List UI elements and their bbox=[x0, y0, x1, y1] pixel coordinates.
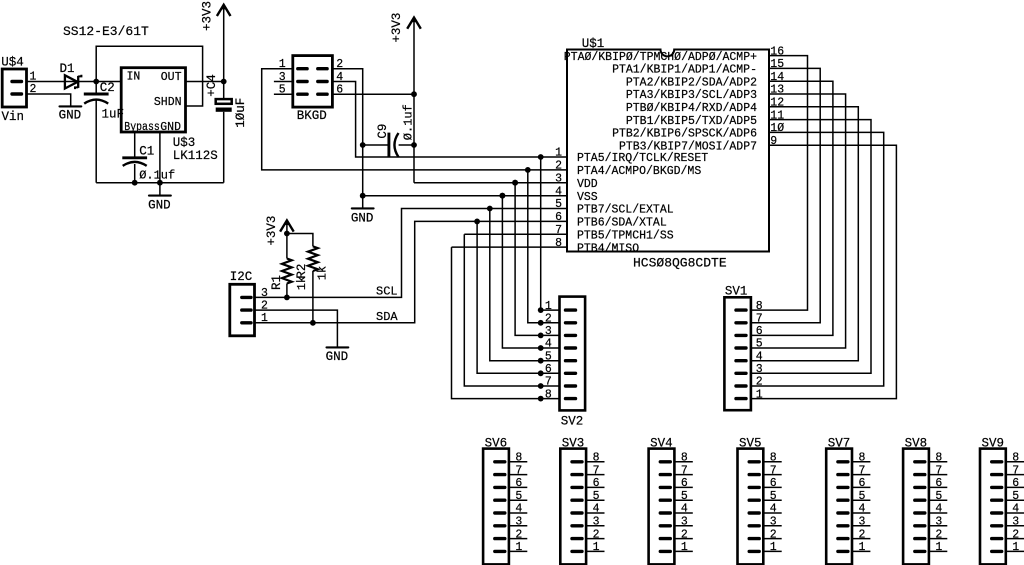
junction node tap pin 2 bbox=[525, 167, 531, 173]
svg-text:4: 4 bbox=[593, 503, 600, 516]
capacitor C4 (polarized) bbox=[216, 99, 232, 183]
value 1uF (C2) bbox=[102, 108, 125, 122]
pin number 9 (U$1) bbox=[770, 135, 777, 148]
wire MCU pin 10 to SV1 pin 2 bbox=[751, 132, 884, 386]
label SV1 bbox=[725, 285, 748, 299]
junction node SV2 pin 7 tip bbox=[538, 383, 544, 389]
pin name IN bbox=[127, 70, 141, 83]
connector SV4 bbox=[649, 449, 675, 565]
svg-text:2: 2 bbox=[935, 528, 942, 541]
junction node R2/SDA bbox=[310, 320, 316, 326]
svg-text:2: 2 bbox=[756, 376, 763, 389]
pin name GND (U$3) bbox=[160, 121, 181, 134]
pin name VDD bbox=[577, 178, 598, 191]
pin number 4 (BKGD) bbox=[336, 71, 343, 84]
svg-text:+3V3: +3V3 bbox=[265, 216, 279, 246]
svg-text:PTA5/IRQ/TCLK/RESET: PTA5/IRQ/TCLK/RESET bbox=[577, 152, 708, 165]
label +C4 bbox=[205, 74, 219, 97]
capacitor C9 bbox=[363, 133, 414, 158]
svg-text:+C4: +C4 bbox=[205, 74, 219, 97]
pin number 1 (BKGD) bbox=[279, 58, 286, 71]
svg-text:7: 7 bbox=[593, 464, 600, 477]
svg-text:4: 4 bbox=[756, 350, 763, 363]
pin number 11 (U$1) bbox=[770, 109, 784, 122]
svg-text:7: 7 bbox=[681, 464, 688, 477]
pin number 8 (SV2) bbox=[545, 388, 552, 401]
svg-text:SS12-E3/61T: SS12-E3/61T bbox=[63, 24, 149, 39]
svg-text:GND: GND bbox=[326, 350, 349, 364]
pin name PTB0/KBIP4/RXD/ADP4 bbox=[626, 102, 757, 115]
svg-text:6: 6 bbox=[1012, 477, 1019, 490]
svg-text:1: 1 bbox=[859, 541, 866, 554]
value 1k (R1) bbox=[295, 276, 309, 290]
svg-text:4: 4 bbox=[935, 503, 942, 516]
pin number 6 (SV2) bbox=[545, 363, 552, 376]
svg-text:SV6: SV6 bbox=[485, 436, 508, 450]
IC U$1 outline bbox=[567, 50, 769, 252]
svg-text:SV7: SV7 bbox=[828, 436, 851, 450]
label C2 bbox=[100, 81, 115, 95]
svg-text:5: 5 bbox=[770, 490, 777, 503]
connector I2C bbox=[230, 284, 255, 336]
supply +3V3 (BKGD) bbox=[407, 18, 421, 183]
pin number 2 (BKGD) bbox=[336, 58, 343, 71]
label SV8 bbox=[905, 436, 928, 450]
diode D1 (schottky) bbox=[65, 75, 82, 89]
junction node GND/BKGD-pin2 bbox=[360, 193, 366, 199]
svg-text:2: 2 bbox=[1012, 528, 1019, 541]
pin name PTB6/SDA/XTAL bbox=[577, 217, 667, 230]
wire SV2 pin 2 bbox=[541, 322, 560, 324]
wire Vin pin2 to GND bbox=[27, 94, 71, 106]
svg-text:1: 1 bbox=[770, 541, 777, 554]
svg-text:2: 2 bbox=[859, 528, 866, 541]
connector SV3 bbox=[560, 449, 586, 565]
pin name PTB4/MISO bbox=[577, 242, 639, 255]
label SS12-E3/61T bbox=[63, 24, 149, 39]
resistor R2 bbox=[308, 246, 318, 271]
svg-text:3: 3 bbox=[859, 516, 866, 529]
svg-text:VDD: VDD bbox=[577, 178, 598, 191]
svg-text:14: 14 bbox=[770, 71, 784, 84]
wire I2C pin2 to GND bbox=[255, 310, 338, 347]
pin number 4 (U$1) bbox=[555, 185, 562, 198]
svg-text:1Ø: 1Ø bbox=[770, 122, 784, 135]
pin number 7 (U$1) bbox=[555, 224, 562, 237]
svg-text:8: 8 bbox=[859, 452, 866, 465]
net label SCL bbox=[376, 285, 398, 299]
junction node SV2 pin 5 tip bbox=[538, 358, 544, 364]
junction node BKGD pin6/+3V3 bbox=[411, 91, 417, 97]
pin number 6 (SV1) bbox=[756, 325, 763, 338]
label U$3 bbox=[173, 136, 196, 150]
capacitor C1 bbox=[122, 132, 147, 183]
svg-text:1: 1 bbox=[555, 147, 562, 160]
wire MCU pin 16 to SV1 pin 8 bbox=[751, 56, 808, 311]
pin name PTA5/IRQ/TCLK/RESET bbox=[577, 152, 708, 165]
wire MCU pin 2 tap to SV2 pin 2 bbox=[528, 170, 541, 323]
svg-text:7: 7 bbox=[859, 464, 866, 477]
supply +3V3 (pullups) bbox=[280, 220, 294, 258]
junction node R1/SCL bbox=[284, 295, 290, 301]
junction node SV2 pin 4 tip bbox=[538, 345, 544, 351]
wire SV2 pin 1 bbox=[541, 309, 560, 311]
svg-text:D1: D1 bbox=[60, 62, 75, 76]
svg-text:BKGD: BKGD bbox=[297, 109, 327, 123]
wire MCU pin 13 to SV1 pin 5 bbox=[751, 94, 846, 348]
pin name PTA1/KBIP1/ADP1/ACMP- bbox=[612, 64, 757, 77]
wire MCU pin 11 to SV1 pin 3 bbox=[751, 120, 871, 374]
pin number 2 (SV2) bbox=[545, 313, 552, 326]
svg-text:IN: IN bbox=[127, 70, 141, 83]
wires SV3 pin stubs bbox=[586, 462, 604, 552]
svg-text:SV3: SV3 bbox=[562, 436, 585, 450]
wires SV6 pin stubs bbox=[509, 462, 527, 552]
ground (I2C) bbox=[326, 347, 349, 364]
junction node VDD tap bbox=[512, 180, 518, 186]
svg-text:R2: R2 bbox=[295, 264, 309, 279]
pin name PTB7/SCL/EXTAL bbox=[577, 204, 674, 217]
svg-text:SV5: SV5 bbox=[739, 436, 762, 450]
svg-text:8: 8 bbox=[770, 452, 777, 465]
wire OUT to +3V3/C4 bbox=[186, 81, 224, 83]
svg-text:5: 5 bbox=[859, 490, 866, 503]
svg-text:3: 3 bbox=[261, 287, 268, 300]
wire +3V3 to MCU VDD bbox=[414, 182, 568, 184]
pin number 6 (U$1) bbox=[555, 211, 562, 224]
svg-text:I2C: I2C bbox=[230, 270, 253, 284]
wire MCU pin 7 tap to SV2 pin 7 bbox=[464, 234, 540, 386]
svg-text:3: 3 bbox=[756, 363, 763, 376]
svg-text:1k: 1k bbox=[316, 266, 330, 280]
wire Vin pin1 to regulator IN bbox=[27, 81, 122, 83]
svg-text:PTB7/SCL/EXTAL: PTB7/SCL/EXTAL bbox=[577, 204, 674, 217]
pin number 2 (U$4) bbox=[30, 83, 37, 96]
label LK112S bbox=[173, 149, 218, 163]
wire SCL (MCU pin5 to I2C pin3) bbox=[255, 209, 568, 298]
wire R2 bottom bbox=[312, 271, 314, 323]
junction node SV2 pin 2 tip bbox=[538, 320, 544, 326]
svg-text:Bypass: Bypass bbox=[124, 121, 160, 134]
pin number 2 (SV1) bbox=[756, 376, 763, 389]
value 10uF (C4) bbox=[234, 98, 248, 128]
svg-text:4: 4 bbox=[681, 503, 688, 516]
pin number 7 (SV1) bbox=[756, 313, 763, 326]
pin number 8 (U$1) bbox=[555, 237, 562, 250]
svg-text:PTAØ/KBIPØ/TPMCHØ/ADPØ/ACMP+: PTAØ/KBIPØ/TPMCHØ/ADPØ/ACMP+ bbox=[564, 51, 757, 64]
svg-text:5: 5 bbox=[515, 490, 522, 503]
pin numbers SV4 bbox=[681, 452, 688, 555]
connector SV5 bbox=[738, 449, 764, 565]
connector SV2 bbox=[560, 297, 586, 411]
svg-text:3: 3 bbox=[593, 516, 600, 529]
label +3V3 (BKGD) bbox=[390, 13, 404, 43]
wire MCU pin 8 stub bbox=[452, 246, 568, 248]
svg-text:1: 1 bbox=[681, 541, 688, 554]
wire +3V3 to R2 top bbox=[287, 234, 313, 247]
pin name SHDN bbox=[154, 96, 182, 109]
pin number 5 (SV2) bbox=[545, 350, 552, 363]
svg-text:PTA4/ACMPO/BKGD/MS: PTA4/ACMPO/BKGD/MS bbox=[577, 165, 701, 178]
svg-text:3: 3 bbox=[515, 516, 522, 529]
pin name PTB1/KBIP5/TXD/ADP5 bbox=[626, 115, 757, 128]
junction node tap pin 4 bbox=[500, 193, 506, 199]
label U$4 bbox=[1, 55, 24, 69]
svg-text:5: 5 bbox=[1012, 490, 1019, 503]
supply +3V3 (regulator output) bbox=[217, 5, 231, 99]
svg-text:8: 8 bbox=[681, 452, 688, 465]
svg-text:1: 1 bbox=[30, 71, 37, 84]
label HCS08QG8CDTE bbox=[633, 256, 727, 271]
pin name PTB2/KBIP6/SPSCK/ADP6 bbox=[612, 128, 757, 141]
svg-text:1: 1 bbox=[935, 541, 942, 554]
value 0.1uf (C1) bbox=[139, 169, 175, 183]
junction node SV2 pin 3 tip bbox=[538, 333, 544, 339]
pin number 10 (U$1) bbox=[770, 122, 784, 135]
wire SV2 pin 3 bbox=[541, 334, 560, 336]
svg-text:7: 7 bbox=[935, 464, 942, 477]
svg-text:U$1: U$1 bbox=[582, 37, 605, 51]
pin name PTA3/KBIP3/SCL/ADP3 bbox=[626, 89, 757, 102]
junction node SV2 pin 8 tip bbox=[538, 396, 544, 402]
wire SV2 pin 6 bbox=[541, 372, 560, 374]
svg-text:2: 2 bbox=[593, 528, 600, 541]
wire MCU pin 8 tap to SV2 pin 8 bbox=[452, 247, 541, 399]
svg-text:1: 1 bbox=[1012, 541, 1019, 554]
svg-text:PTB6/SDA/XTAL: PTB6/SDA/XTAL bbox=[577, 217, 667, 230]
svg-text:PTB5/TPMCH1/SS: PTB5/TPMCH1/SS bbox=[577, 229, 674, 242]
wire R1 bottom bbox=[286, 284, 288, 298]
label +3V3 (regulator output) bbox=[200, 1, 214, 31]
svg-text:4: 4 bbox=[1012, 503, 1019, 516]
wire SV2 pin 7 bbox=[541, 385, 560, 387]
svg-text:C2: C2 bbox=[100, 81, 115, 95]
junction node OUT/+3V3/C4 bbox=[221, 79, 227, 85]
svg-text:7: 7 bbox=[770, 464, 777, 477]
svg-text:2: 2 bbox=[681, 528, 688, 541]
ground (BKGD) bbox=[351, 208, 374, 225]
svg-text:7: 7 bbox=[756, 313, 763, 326]
svg-text:GND: GND bbox=[148, 199, 171, 213]
stub BKGD pin5 bbox=[274, 93, 293, 95]
svg-text:Ø.1uf: Ø.1uf bbox=[139, 169, 175, 183]
wire U$3 GND pin bbox=[159, 132, 161, 196]
junction node U$3-GND/rail bbox=[157, 180, 163, 186]
label +3V3 (pullups) bbox=[265, 216, 279, 246]
svg-text:5: 5 bbox=[593, 490, 600, 503]
pin name PTA0/KBIP0/TPMCH0/ADP0/ACMP+ bbox=[564, 51, 757, 64]
svg-text:SV8: SV8 bbox=[905, 436, 928, 450]
pin numbers SV7 bbox=[859, 452, 866, 555]
svg-text:8: 8 bbox=[756, 300, 763, 313]
connector SV7 bbox=[826, 449, 852, 565]
connector SV1 bbox=[724, 297, 751, 410]
pin numbers SV5 bbox=[770, 452, 777, 555]
wires SV5 pin stubs bbox=[763, 462, 781, 552]
pin number 3 (BKGD) bbox=[279, 71, 286, 84]
svg-text:SV9: SV9 bbox=[982, 436, 1005, 450]
svg-text:OUT: OUT bbox=[161, 71, 182, 84]
wire MCU pin 3 tap to SV2 pin 3 bbox=[515, 183, 541, 336]
junction node tap pin 3 bbox=[512, 180, 518, 186]
label Vin bbox=[2, 110, 25, 124]
svg-text:SV1: SV1 bbox=[725, 285, 748, 299]
pin number 1 (SV2) bbox=[545, 300, 552, 313]
svg-text:6: 6 bbox=[593, 477, 600, 490]
wire SV2 pin 5 bbox=[541, 360, 560, 362]
svg-text:1: 1 bbox=[756, 388, 763, 401]
wire MCU pin 5 tap to SV2 pin 5 bbox=[490, 209, 541, 361]
svg-text:2: 2 bbox=[555, 160, 562, 173]
stub BKGD pin3 bbox=[274, 81, 293, 83]
svg-text:4: 4 bbox=[770, 503, 777, 516]
svg-text:8: 8 bbox=[935, 452, 942, 465]
ground (regulator) bbox=[148, 196, 171, 213]
svg-text:SV4: SV4 bbox=[650, 436, 673, 450]
svg-text:7: 7 bbox=[1012, 464, 1019, 477]
svg-text:+3V3: +3V3 bbox=[200, 1, 214, 31]
pin number 15 (U$1) bbox=[770, 58, 784, 71]
svg-text:8: 8 bbox=[515, 452, 522, 465]
junction node SV2 pin 6 tip bbox=[538, 370, 544, 376]
svg-text:1ØuF: 1ØuF bbox=[234, 98, 248, 128]
pin number 6 (BKGD) bbox=[336, 84, 343, 97]
svg-text:GND: GND bbox=[160, 121, 181, 134]
pin number 3 (U$1) bbox=[555, 172, 562, 185]
junction node Vin/D1/C2/IN bbox=[93, 79, 99, 85]
value 1k (R2) bbox=[316, 266, 330, 280]
resistor R1 bbox=[282, 259, 292, 284]
svg-text:+3V3: +3V3 bbox=[390, 13, 404, 43]
regulator U$3 box bbox=[121, 68, 185, 132]
svg-text:C9: C9 bbox=[376, 124, 390, 139]
wire MCU pin 15 to SV1 pin 7 bbox=[751, 68, 820, 322]
junction node tap pin 5 bbox=[487, 206, 493, 212]
pin name PTB3/KBIP7/MOSI/ADP7 bbox=[619, 140, 757, 153]
label I2C bbox=[230, 270, 253, 284]
pin name PTA2/KBIP2/SDA/ADP2 bbox=[626, 76, 757, 89]
svg-text:1: 1 bbox=[261, 312, 268, 325]
svg-text:6: 6 bbox=[770, 477, 777, 490]
junction node SV2 pin 1 tip bbox=[538, 307, 544, 313]
svg-text:LK112S: LK112S bbox=[173, 149, 218, 163]
junction node VSS tap bbox=[500, 193, 506, 199]
svg-text:3: 3 bbox=[770, 516, 777, 529]
svg-text:6: 6 bbox=[515, 477, 522, 490]
svg-text:2: 2 bbox=[770, 528, 777, 541]
pin number 8 (SV1) bbox=[756, 300, 763, 313]
svg-text:2: 2 bbox=[515, 528, 522, 541]
value 0.1uf (C9) bbox=[402, 104, 416, 140]
svg-text:7: 7 bbox=[515, 464, 522, 477]
svg-text:6: 6 bbox=[756, 325, 763, 338]
pin number 1 (I2C) bbox=[261, 312, 268, 325]
wire BKGD pin4 to MCU pin1 (RESET) bbox=[332, 82, 567, 158]
wire GND to MCU VSS bbox=[363, 195, 568, 197]
svg-text:GND: GND bbox=[59, 109, 82, 123]
pin number 5 (BKGD) bbox=[279, 84, 286, 97]
pin number 1 (U$4) bbox=[30, 71, 37, 84]
junction node tap pin 1 bbox=[538, 154, 544, 160]
svg-text:6: 6 bbox=[555, 211, 562, 224]
wire BKGD pin2 to GND bbox=[332, 69, 362, 209]
pin number 5 (SV1) bbox=[756, 338, 763, 351]
svg-text:SV2: SV2 bbox=[561, 415, 584, 429]
wire MCU pin 14 to SV1 pin 6 bbox=[751, 81, 833, 335]
svg-text:1: 1 bbox=[593, 541, 600, 554]
pin number 4 (SV2) bbox=[545, 338, 552, 351]
label C1 bbox=[139, 144, 154, 158]
svg-text:8: 8 bbox=[593, 452, 600, 465]
svg-text:VSS: VSS bbox=[577, 191, 598, 204]
svg-text:PTBØ/KBIP4/RXD/ADP4: PTBØ/KBIP4/RXD/ADP4 bbox=[626, 102, 757, 115]
junction node tap pin 6 bbox=[474, 219, 480, 225]
label SV9 bbox=[982, 436, 1005, 450]
pin number 1 (SV1) bbox=[756, 388, 763, 401]
pin number 4 (SV1) bbox=[756, 350, 763, 363]
pin number 5 (U$1) bbox=[555, 198, 562, 211]
pin number 16 (U$1) bbox=[770, 45, 784, 58]
svg-text:4: 4 bbox=[515, 503, 522, 516]
wire MCU pin 1 tap to SV2 pin 1 bbox=[540, 157, 542, 310]
svg-text:6: 6 bbox=[681, 477, 688, 490]
pin number 3 (SV1) bbox=[756, 363, 763, 376]
label D1 bbox=[60, 62, 75, 76]
svg-text:PTA1/KBIP1/ADP1/ACMP-: PTA1/KBIP1/ADP1/ACMP- bbox=[612, 64, 757, 77]
pin number 3 (SV2) bbox=[545, 325, 552, 338]
svg-text:3: 3 bbox=[555, 172, 562, 185]
wire BKGD pin1 to MCU pin2 (BKGD/MS) bbox=[262, 69, 568, 170]
svg-text:5: 5 bbox=[756, 338, 763, 351]
wires SV7 pin stubs bbox=[852, 462, 870, 552]
ground rail wire bbox=[96, 182, 224, 184]
connector SV6 bbox=[483, 449, 509, 565]
junction node C9 right bbox=[411, 142, 417, 148]
wires SV9 pin stubs bbox=[1006, 462, 1024, 552]
svg-text:5: 5 bbox=[935, 490, 942, 503]
svg-text:3: 3 bbox=[1012, 516, 1019, 529]
label R1 bbox=[270, 275, 284, 290]
pin number 12 (U$1) bbox=[770, 97, 784, 110]
capacitor C2 bbox=[84, 82, 109, 183]
svg-text:3: 3 bbox=[935, 516, 942, 529]
svg-text:PTA2/KBIP2/SDA/ADP2: PTA2/KBIP2/SDA/ADP2 bbox=[626, 76, 757, 89]
connector U$4 (Vin) bbox=[2, 69, 26, 107]
svg-text:4: 4 bbox=[859, 503, 866, 516]
svg-text:Ø.1uf: Ø.1uf bbox=[402, 104, 416, 140]
wire BKGD pin6 to +3V3 bbox=[332, 93, 414, 95]
wire SHDN enable loop bbox=[96, 46, 202, 106]
svg-text:5: 5 bbox=[681, 490, 688, 503]
label BKGD bbox=[297, 109, 327, 123]
svg-text:PTB1/KBIP5/TXD/ADP5: PTB1/KBIP5/TXD/ADP5 bbox=[626, 115, 757, 128]
wire SV2 pin 8 bbox=[541, 398, 560, 400]
ground (Vin pin2) bbox=[59, 106, 82, 122]
pin name Bypass bbox=[124, 121, 160, 134]
connector SV9 bbox=[980, 449, 1006, 565]
svg-text:PTB2/KBIP6/SPSCK/ADP6: PTB2/KBIP6/SPSCK/ADP6 bbox=[612, 128, 757, 141]
wire SDA (MCU pin6 to I2C pin1) bbox=[255, 221, 568, 322]
svg-text:6: 6 bbox=[859, 477, 866, 490]
pin numbers SV8 bbox=[935, 452, 942, 555]
label SV4 bbox=[650, 436, 673, 450]
connector SV8 bbox=[903, 449, 929, 565]
svg-text:3: 3 bbox=[681, 516, 688, 529]
pin number 3 (I2C) bbox=[261, 287, 268, 300]
pin name VSS bbox=[577, 191, 598, 204]
pin number 14 (U$1) bbox=[770, 71, 784, 84]
junction node R1/R2 top bbox=[284, 231, 290, 237]
